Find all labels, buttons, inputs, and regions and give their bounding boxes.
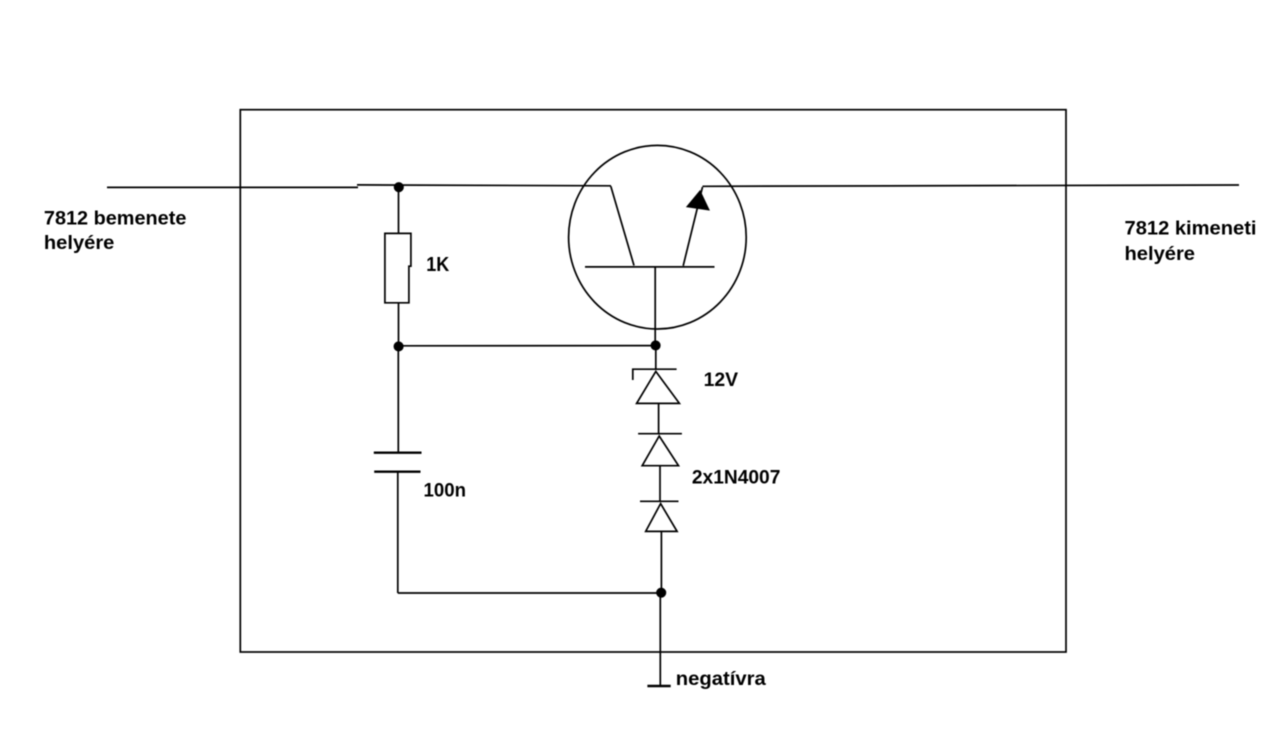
- svg-text:1K: 1K: [426, 254, 449, 276]
- ground terminal bar: [647, 685, 670, 687]
- wire: input line from left edge: [107, 185, 611, 188]
- capacitor C1 bottom plate: [374, 471, 420, 473]
- svg-text:2x1N4007: 2x1N4007: [692, 467, 781, 489]
- wire: D1 to D2: [658, 403, 660, 433]
- transistor Q1 collector arrow: [688, 192, 709, 210]
- diode D3 cathode bar: [640, 500, 679, 502]
- svg-text:7812 kimeneti: 7812 kimeneti: [1125, 218, 1257, 240]
- svg-text:negatívra: negatívra: [676, 668, 767, 690]
- wire: R1 bottom lead: [398, 303, 400, 347]
- wire: D2 to D3: [659, 466, 661, 502]
- diode D2 cathode bar: [638, 433, 682, 435]
- wire: node down to ground: [659, 593, 661, 686]
- transistor Q1 emitter lead (left slant): [611, 186, 634, 265]
- transistor Q1 body circle: [569, 145, 747, 329]
- zener diode D1 triangle: [637, 371, 680, 403]
- svg-text:12V: 12V: [704, 369, 739, 391]
- wire: C1 top lead: [397, 346, 399, 453]
- transistor Q1 base bar: [585, 266, 715, 268]
- transistor Q1 collector lead (right slant): [683, 187, 702, 266]
- wire: output line to right edge: [703, 185, 1240, 186]
- node: transistor / zener junction: [651, 341, 659, 349]
- wire: bottom horizontal run: [398, 592, 661, 594]
- svg-text:7812 bemenete: 7812 bemenete: [44, 208, 187, 230]
- capacitor C1 top plate: [374, 452, 422, 454]
- zener diode D1 cathode bar (bent): [633, 369, 677, 380]
- label: 7812 bemenete helyere (input): [44, 208, 187, 254]
- node: R1 / C1 / base junction: [394, 342, 402, 350]
- svg-text:100n: 100n: [424, 480, 467, 502]
- enclosure box: [240, 110, 1066, 652]
- diode D3 triangle: [646, 504, 677, 532]
- wire: base bar down to zener node: [654, 267, 656, 346]
- label: 7812 kimeneti helyere (output): [1125, 218, 1257, 265]
- svg-text:helyére: helyére: [44, 232, 115, 254]
- resistor R1 body: [385, 233, 411, 302]
- diode D2 triangle: [642, 436, 678, 466]
- wire: node to zener D1: [655, 346, 657, 370]
- wire: C1 bottom lead: [397, 472, 399, 593]
- wire: junction to transistor base node: [399, 345, 656, 347]
- wire: R1 top lead: [398, 187, 400, 233]
- svg-text:helyére: helyére: [1125, 243, 1196, 265]
- node: bottom junction: [657, 589, 665, 597]
- node: input / R1 junction: [395, 183, 403, 191]
- wire: D3 to bottom node: [660, 531, 662, 593]
